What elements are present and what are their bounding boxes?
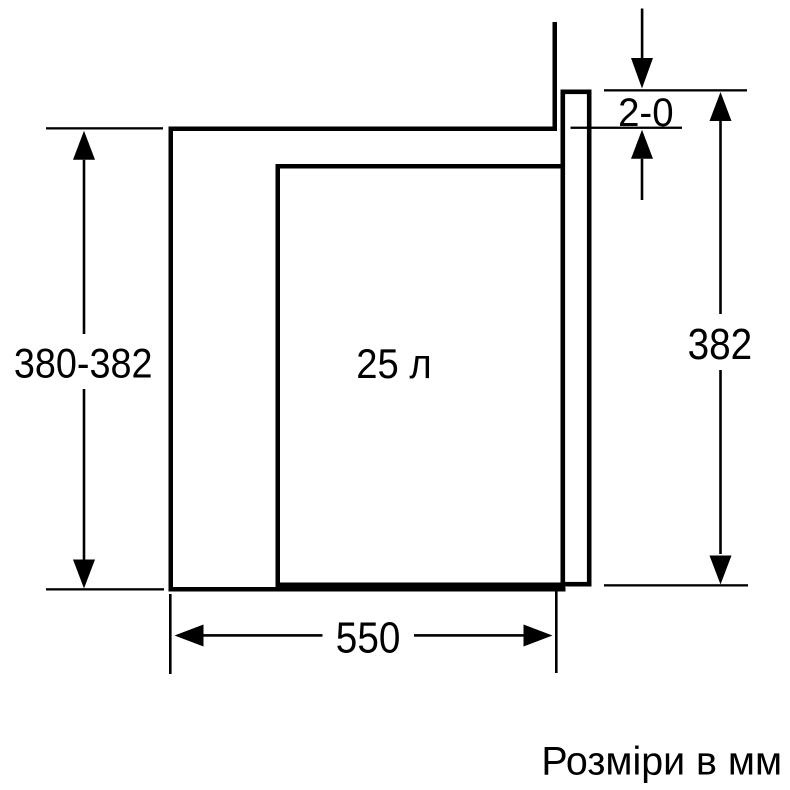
left dimension arrow down head — [73, 560, 95, 589]
550 dimension right arrow head — [524, 625, 553, 647]
right dimension stem lower — [719, 370, 722, 554]
550 left extension line — [169, 594, 172, 674]
svg-text:380-382: 380-382 — [14, 341, 153, 387]
top-right extension line — [604, 89, 747, 91]
wall / cabinet front edge line — [553, 22, 558, 131]
svg-text:25 л: 25 л — [356, 341, 431, 388]
left dimension stem lower — [83, 389, 86, 560]
svg-text:382: 382 — [688, 319, 753, 369]
niche outer box top edge — [169, 127, 558, 132]
2-0 top down-arrow head — [631, 58, 653, 89]
550 dimension left arrow head — [175, 625, 204, 647]
2-0 top down-arrow stem — [641, 9, 644, 59]
bottom-right extension line — [604, 584, 748, 586]
svg-text:2-0: 2-0 — [618, 91, 673, 135]
appliance inner box top edge — [276, 164, 566, 169]
right dimension arrow up head — [710, 92, 732, 121]
niche outer box left edge — [169, 127, 174, 592]
left dimension arrow up head — [73, 131, 95, 160]
appliance inner box bottom edge — [276, 583, 566, 588]
550 right extension line — [555, 588, 558, 673]
door frame narrow rectangle — [563, 92, 589, 584]
top-left extension line — [46, 127, 163, 129]
2-0 bottom up-arrow head — [631, 130, 653, 159]
bottom-left extension line — [46, 588, 164, 590]
appliance inner box left edge — [276, 164, 281, 587]
left dimension stem upper — [83, 160, 86, 334]
svg-text:550: 550 — [336, 612, 401, 662]
550 dimension line left segment — [204, 634, 323, 637]
2-0 lower extension line — [571, 127, 683, 129]
svg-text:Розміри в мм: Розміри в мм — [541, 739, 782, 783]
550 dimension line right segment — [414, 634, 524, 637]
niche outer box bottom edge — [169, 587, 566, 592]
right dimension stem upper — [719, 121, 722, 314]
right dimension arrow down head — [710, 556, 732, 585]
2-0 bottom up-arrow stem — [641, 159, 644, 200]
